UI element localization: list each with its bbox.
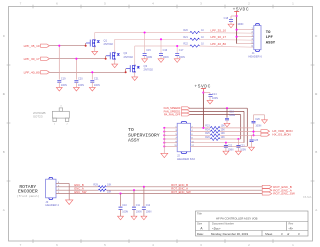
wire left ground rail [163,128,165,153]
wire FAN_SPEED0 [190,107,248,109]
svg-text:Q1: Q1 [104,38,108,42]
transistor Q2 2N7002 [106,52,115,59]
junction rail row 4 [163,138,165,140]
svg-text:Rev: Rev [289,222,294,226]
wire gate jog Q3 [125,69,127,73]
svg-text:Document Number: Document Number [212,222,234,226]
svg-text:B: B [315,150,317,154]
connector J2 HEADER 6X2 [181,122,187,124]
svg-text:J1: J1 [252,51,255,55]
svg-text:C16: C16 [163,49,168,52]
ground C17 [174,59,180,63]
resistor R22 [190,45,200,47]
capacitor C23 [237,139,239,145]
junction C15 tap [144,31,146,33]
svg-text:C17: C17 [179,49,184,52]
svg-text:A: A [315,208,317,212]
svg-text:R26: R26 [205,136,210,139]
capacitor C19 [57,80,61,82]
wire row6 out [191,145,248,147]
wire join stack [253,128,255,135]
svg-text:Title: Title [197,211,202,215]
junction C10 tap [119,193,121,195]
junction pin1 [236,29,238,31]
wire PA_FAN_OFF down [240,115,242,139]
ground C26 [262,120,268,124]
junction C22 tap [225,142,227,144]
ground C12 [141,216,147,220]
output port ROT_ENC_A [262,189,272,192]
svg-text:100N: 100N [122,211,128,214]
wire left pin row 6 [164,145,177,147]
wire drain Q2 up [114,39,116,52]
svg-text:ENC_SW: ENC_SW [74,190,86,194]
svg-text:100N: 100N [212,97,218,100]
svg-text:of: of [287,232,290,236]
svg-text:10K: 10K [107,183,112,186]
svg-text:Q2: Q2 [124,51,128,55]
junction C23 tap [237,138,239,140]
capacitor C22 [225,143,227,145]
wire row1 out [220,127,254,129]
ground C10 [118,216,124,220]
svg-text:R21: R21 [183,36,188,39]
svg-text:R20: R20 [183,29,188,32]
svg-text:C23: C23 [240,145,245,148]
junction +5V C18 [236,15,238,17]
svg-text:100N: 100N [61,84,67,87]
capacitor C17 [175,54,179,56]
wire gate jog Q1 [85,43,87,46]
junction +5V row1 [202,127,204,129]
junction C12 tap [143,186,145,188]
wire left pin row 5 [164,142,177,144]
output port HX_GS_MON [261,133,270,136]
wire left pin row 3 [164,134,177,136]
ground C16 [158,59,164,63]
wire source Q2 down [114,59,116,64]
svg-text:K5-N/A: K5-N/A [303,195,312,199]
resistor R20 [190,31,200,33]
svg-text:TO: TO [266,31,271,35]
wire FAN_SPEED1 [190,110,244,112]
ground C15 [142,59,148,63]
wire ROT_ENC_B line [106,186,262,188]
junction C21 tap [91,71,93,73]
svg-text:HEADER 6X2: HEADER 6X2 [177,157,195,161]
wire LPF_35_10 to gate Q1 [50,45,86,47]
wire row4 out [220,138,241,140]
svg-text:10K: 10K [107,191,112,194]
output port ROT_ENC_B [262,185,272,188]
svg-text:C25: C25 [254,139,259,142]
svg-text:C20: C20 [78,77,83,80]
svg-text:R29: R29 [93,183,98,186]
svg-text:C15: C15 [146,49,151,52]
svg-text:100N: 100N [237,23,243,26]
gate pin dot Q2 [105,58,107,60]
capacitor C18 [231,15,237,17]
wire FAN_SPEED0 down [246,108,248,146]
svg-text:SOT23: SOT23 [33,115,43,119]
svg-text:C22: C22 [228,145,233,148]
svg-text:Sheet: Sheet [265,232,273,236]
capacitor C14 [203,92,210,94]
ground C13 [224,123,230,127]
ground C14 [207,100,213,104]
junction pin3 [236,36,238,38]
svg-text:2N7002: 2N7002 [124,55,134,59]
ground source Q3 [132,77,138,81]
title block [196,211,309,236]
svg-text:HF PA CONTROLLER ASSY I/OB: HF PA CONTROLLER ASSY I/OB [216,216,258,220]
output port ROT_ENC_SW [262,192,272,195]
svg-text:C18: C18 [224,17,229,20]
wire left pin row 2 [164,131,177,133]
wire right pin row 1 [191,127,211,129]
junction C19 tap [58,45,60,47]
wire ROT_ENC_A line [106,189,262,191]
capacitor C25 [252,134,254,136]
svg-text:LPF_40_80: LPF_40_80 [24,70,40,74]
wire HX_VDD_MON [220,131,261,133]
wire drain line 3 [135,45,190,47]
wire gate jog Q2 [105,56,107,59]
svg-text:2N7002: 2N7002 [104,42,114,46]
svg-text:<Doc>: <Doc> [212,226,221,230]
svg-text:100N: 100N [136,211,142,214]
svg-text:10K: 10K [221,132,226,135]
junction rail row 5 [163,142,165,144]
svg-text:C19: C19 [61,77,66,80]
svg-text:100N: 100N [78,84,84,87]
svg-text:TO: TO [128,127,134,133]
svg-text:ENCODER: ENCODER [18,189,38,195]
wire LPF_30_17 to gate Q2 [50,58,106,60]
ground C19 [56,87,62,91]
svg-text:Size: Size [197,222,203,226]
svg-text:100N: 100N [146,211,152,214]
wire C17 drop [176,46,178,53]
svg-text:(front panel): (front panel) [17,194,40,198]
wire +5V to pin5 [237,43,254,45]
wire right pin row 2 [191,131,211,133]
ground C11 [131,216,137,220]
svg-text:100N: 100N [94,84,100,87]
svg-text:R24: R24 [205,128,210,131]
junction C13 tap [226,107,228,109]
junction row3 [252,134,254,136]
junction rail row 2 [163,131,165,133]
svg-text:LPF_40_80: LPF_40_80 [211,42,227,46]
junction rail row 3 [163,134,165,136]
svg-text:A: A [3,208,5,212]
wire to header pin 4 [200,38,254,41]
wire C21 to gnd [91,82,93,87]
wire drain line 2 [115,38,190,40]
svg-text:LPF_30_17: LPF_30_17 [211,35,227,39]
svg-text:C21: C21 [94,77,99,80]
wire +5V to pin3 [237,36,254,38]
transistor Q3 2N7002 [126,65,135,72]
gate pin dot Q1 [85,45,87,47]
svg-text:PA_FAN_OFF: PA_FAN_OFF [164,113,181,117]
connector J3 HEADER 4 [49,178,53,180]
svg-text:R22: R22 [183,43,188,46]
gate pin dot Q3 [125,71,127,73]
svg-text:100N: 100N [229,114,235,117]
wire C19 drop [58,46,60,80]
svg-text:100N: 100N [255,124,261,127]
svg-text:ASSY: ASSY [266,41,276,45]
wire right pin row 4 [191,138,211,140]
svg-text:10K: 10K [221,136,226,139]
svg-text:<R>: <R> [289,227,294,230]
wire drain Q3 up [134,46,136,65]
wire drain line 1 [95,32,190,34]
wire C20 to gnd [75,82,77,87]
connector J1 HEADER 6 [255,24,259,26]
svg-text:Monday, December 30, 2019: Monday, December 30, 2019 [211,232,248,236]
svg-text:2N7002: 2N7002 [144,68,154,72]
svg-text:C14: C14 [212,93,217,96]
wire +5V rail [236,16,238,44]
wire to header pin 6 [200,46,254,47]
svg-text:B: B [3,150,5,154]
svg-text:C12: C12 [146,204,151,207]
svg-text:C26: C26 [255,118,260,121]
wire to gnd corner [254,114,265,116]
wire +5V to pin1 [237,29,254,31]
svg-text:C11: C11 [136,204,141,207]
svg-text:SUPERVISORY: SUPERVISORY [128,132,160,138]
wire FAN_SPEED1 down [243,111,245,142]
ground C21 [89,87,95,91]
resistor R25 [210,134,220,137]
wire C19 to gnd [58,82,60,87]
capacitor C15 [143,54,147,56]
svg-text:HEADER 4: HEADER 4 [45,203,59,207]
wire C21 drop [91,72,93,79]
svg-text:HX_GS_MON: HX_GS_MON [272,133,290,137]
resistor R29 [98,186,106,188]
wire ROT_ENC_SW line [56,193,262,195]
svg-text:ROT_ENC_SW: ROT_ENC_SW [273,192,295,196]
ground C22 [223,151,229,155]
ground encoder [66,200,73,205]
ground C25 [249,147,255,151]
junction row2 [252,131,254,133]
svg-text:LPF_35_10: LPF_35_10 [211,28,227,32]
wire row5 out [191,142,244,144]
svg-text:ROT_ENC_SW: ROT_ENC_SW [171,190,191,194]
wire source Q1 down [94,46,96,51]
svg-text:10K: 10K [221,125,226,128]
svg-text:LPF_30_17: LPF_30_17 [24,57,40,61]
svg-text:C10: C10 [122,204,127,207]
svg-text:Q3: Q3 [144,64,148,68]
wire drain Q1 up [94,33,96,40]
svg-text:J3: J3 [45,200,48,204]
svg-text:10K: 10K [221,128,226,131]
resistor R26 [210,138,220,141]
junction C14 tap [202,92,204,94]
capacitor C21 [90,80,94,82]
wire C26 up [253,115,255,122]
junction C20 tap [75,58,77,60]
ground source Q1 [92,51,98,55]
svg-text:LPF_35_10: LPF_35_10 [24,44,40,48]
wire left pin row 1 [164,127,177,129]
svg-text:R23: R23 [205,125,210,128]
svg-text:LPF: LPF [266,36,274,40]
junction C17 tap [176,45,178,47]
ground header left [161,153,168,157]
wire C16 drop [160,39,162,53]
wire +5V rail middle [202,93,204,128]
wire source Q3 down [134,72,136,77]
svg-text:Date:: Date: [197,232,204,236]
wire ENC_B [56,186,98,188]
wire pin4 to gnd [56,182,69,184]
svg-text:HEADER 6: HEADER 6 [248,54,262,58]
resistor R24 [210,130,220,133]
capacitor C16 [159,54,163,56]
wire left pin row 4 [164,138,177,140]
junction rail row 1 [163,127,165,129]
wire right pin row 3 [191,134,211,136]
ground C20 [73,87,79,91]
junction C16 tap [160,38,162,40]
svg-text:R25: R25 [205,132,210,135]
junction rail row 6 [163,145,165,147]
capacitor C26 [253,123,255,128]
resistor R30 [98,189,106,191]
resistor R23 [210,126,220,129]
wire ENC_A [56,189,98,191]
wire to header pin 2 [200,32,254,35]
capacitor C20 [74,80,78,82]
resistor R21 [190,38,200,40]
ground C18 [228,24,234,28]
wire LPF_40_80 to gate Q3 [50,71,126,73]
svg-text:C13: C13 [229,110,234,113]
wire PA_FAN_OFF [190,114,241,116]
ground C23 [235,151,241,155]
ground source Q2 [112,64,118,68]
wire C20 drop [75,59,77,80]
wire HX_GS_MON [220,134,261,136]
wire C15 drop [144,33,146,54]
output port HX_VDD_MON [261,130,270,133]
junction C11 tap [133,189,135,191]
transistor Q1 2N7002 [86,40,95,47]
svg-text:ASSY: ASSY [128,137,140,143]
